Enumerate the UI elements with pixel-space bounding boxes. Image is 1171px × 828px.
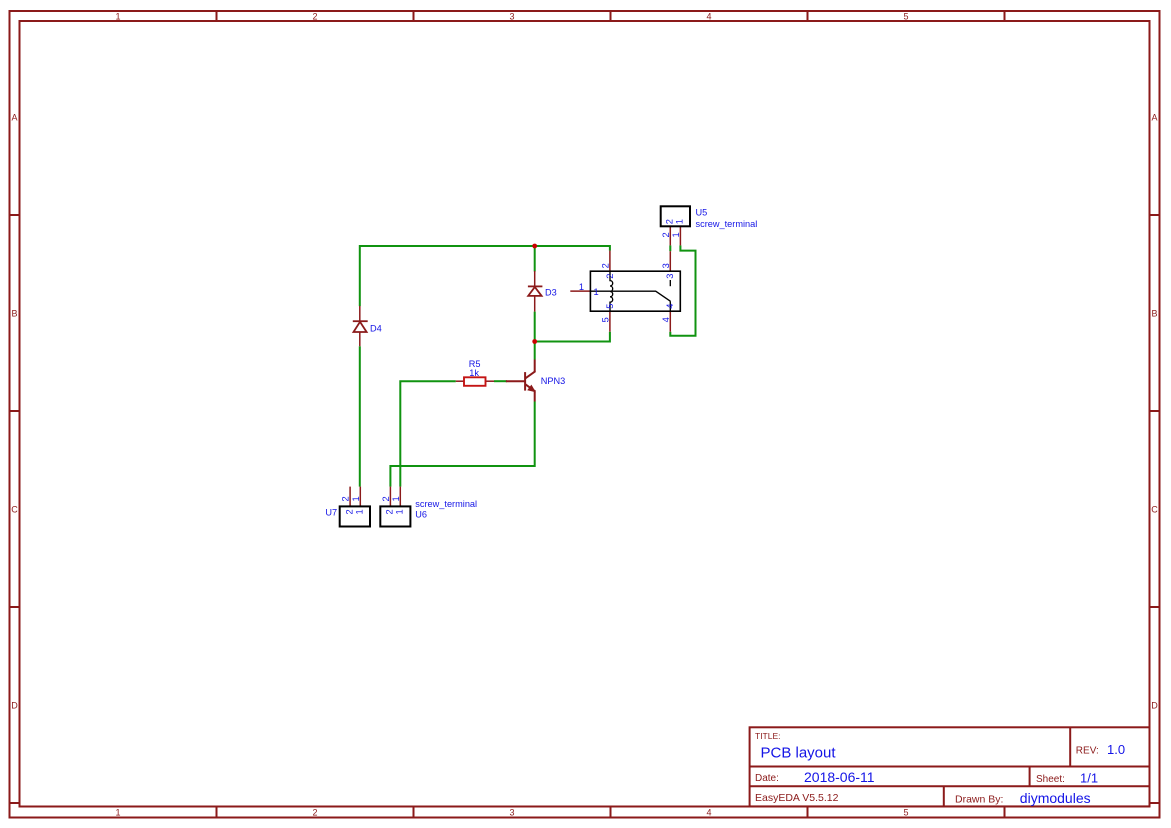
- svg-text:2: 2: [605, 274, 615, 279]
- svg-text:REV:: REV:: [1076, 746, 1099, 757]
- svg-text:5: 5: [903, 12, 908, 22]
- svg-text:A: A: [1151, 113, 1157, 123]
- svg-text:4: 4: [706, 808, 711, 818]
- relay common contact line: [590, 291, 670, 301]
- svg-text:U6: U6: [415, 510, 427, 520]
- svg-text:D: D: [11, 701, 18, 711]
- svg-text:1k: 1k: [469, 368, 479, 378]
- svg-text:2: 2: [344, 509, 354, 514]
- svg-text:2: 2: [385, 509, 395, 514]
- svg-text:1: 1: [671, 232, 681, 237]
- diode D3: [528, 286, 543, 296]
- relay coil: [610, 271, 613, 311]
- svg-text:screw_terminal: screw_terminal: [696, 219, 758, 229]
- relay pin4 inner stub: [669, 301, 671, 311]
- pin D3 cathode bottom: [534, 296, 536, 312]
- svg-text:2: 2: [341, 496, 351, 501]
- pin relay.2: [609, 251, 611, 272]
- svg-text:Drawn By:: Drawn By:: [955, 794, 1003, 806]
- svg-text:3: 3: [509, 808, 514, 818]
- svg-text:2: 2: [312, 808, 317, 818]
- svg-text:diymodules: diymodules: [1020, 790, 1091, 806]
- svg-text:1/1: 1/1: [1080, 771, 1098, 786]
- svg-text:NPN3: NPN3: [541, 376, 566, 386]
- wire NPN3 emitter to U6 pin2: [390, 402, 534, 487]
- pin D4 bottom: [359, 332, 361, 346]
- svg-text:U5: U5: [696, 208, 708, 218]
- svg-text:1: 1: [351, 496, 361, 501]
- svg-text:4: 4: [661, 317, 671, 322]
- svg-text:1: 1: [115, 808, 120, 818]
- svg-text:5: 5: [903, 808, 908, 818]
- relay body: [590, 271, 680, 311]
- svg-text:1: 1: [675, 219, 685, 224]
- svg-text:screw_terminal: screw_terminal: [415, 499, 477, 509]
- svg-text:4: 4: [706, 12, 711, 22]
- svg-text:Date:: Date:: [755, 773, 779, 784]
- wire U5 pin1 to relay pin4: [670, 245, 695, 335]
- transistor NPN3 emitter arrow: [527, 385, 536, 393]
- frame column numbers bottom: [115, 808, 908, 818]
- svg-text:1: 1: [395, 509, 405, 514]
- pin U7.2: [349, 487, 351, 507]
- svg-text:5: 5: [605, 304, 615, 309]
- svg-text:Sheet:: Sheet:: [1036, 774, 1065, 785]
- pin U6.1: [399, 487, 401, 507]
- pin D3 anode top: [534, 271, 536, 287]
- diode D4: [353, 321, 368, 332]
- svg-text:C: C: [11, 505, 18, 515]
- svg-text:2: 2: [312, 12, 317, 22]
- svg-text:1: 1: [391, 496, 401, 501]
- transistor NPN3: [506, 360, 536, 402]
- svg-text:4: 4: [665, 304, 675, 309]
- wire D3 top segment: [534, 246, 536, 272]
- frame column numbers top: [115, 12, 908, 22]
- svg-text:5: 5: [600, 317, 610, 322]
- pin R5 left: [456, 380, 464, 382]
- connector U6: [380, 506, 410, 526]
- wire junction to NPN3 collector: [534, 342, 536, 360]
- svg-text:1: 1: [579, 282, 584, 292]
- svg-text:TITLE:: TITLE:: [755, 731, 781, 741]
- title block: [750, 727, 1150, 806]
- connector U7: [340, 506, 370, 526]
- resistor R5: [464, 377, 486, 386]
- pin relay.4: [669, 311, 671, 332]
- wire U5 pin2 to relay pin3: [669, 245, 671, 251]
- pin D4 top: [359, 306, 361, 322]
- svg-text:3: 3: [665, 274, 675, 279]
- pin U6.2: [389, 487, 391, 507]
- frame row letters left: [11, 113, 18, 711]
- junction dot top: [532, 244, 537, 249]
- wire R5 left to U6 pin1: [400, 381, 456, 486]
- junction dot bottom: [532, 339, 537, 344]
- svg-text:2018-06-11: 2018-06-11: [804, 769, 875, 785]
- svg-text:3: 3: [509, 12, 514, 22]
- wire D4 bottom to U7 pin1: [359, 346, 361, 486]
- svg-text:1: 1: [115, 12, 120, 22]
- pin relay.5: [609, 311, 611, 332]
- svg-text:1: 1: [594, 287, 599, 297]
- wire top horizontal net: [360, 246, 610, 306]
- svg-text:D3: D3: [545, 288, 557, 298]
- svg-text:1: 1: [355, 509, 365, 514]
- svg-text:U7: U7: [325, 507, 337, 517]
- svg-text:2: 2: [381, 496, 391, 501]
- wire junction to relay pin5: [535, 332, 610, 342]
- pin U7.1: [359, 487, 361, 507]
- frame row letters right: [1151, 113, 1158, 711]
- svg-text:A: A: [11, 113, 17, 123]
- pin relay.3: [669, 251, 671, 271]
- svg-text:1.0: 1.0: [1107, 742, 1125, 757]
- svg-text:2: 2: [661, 232, 671, 237]
- pin relay.1: [570, 290, 590, 292]
- svg-text:3: 3: [661, 263, 671, 268]
- connector U5: [661, 206, 690, 226]
- svg-text:D: D: [1151, 701, 1158, 711]
- svg-text:2: 2: [600, 263, 610, 268]
- svg-text:B: B: [1151, 309, 1157, 319]
- pin R5 right: [486, 380, 495, 382]
- svg-text:D4: D4: [370, 323, 382, 333]
- svg-text:EasyEDA V5.5.12: EasyEDA V5.5.12: [755, 792, 839, 804]
- relay pin3 inner stub: [669, 280, 671, 286]
- pin U5.1: [679, 226, 681, 245]
- svg-text:PCB layout: PCB layout: [761, 745, 837, 762]
- wire R5 to NPN3 base: [494, 380, 507, 382]
- svg-text:2: 2: [665, 219, 675, 224]
- svg-text:C: C: [1151, 505, 1158, 515]
- wire D3 bottom to junction: [534, 312, 536, 342]
- pin U5.2: [669, 226, 671, 245]
- svg-text:B: B: [11, 309, 17, 319]
